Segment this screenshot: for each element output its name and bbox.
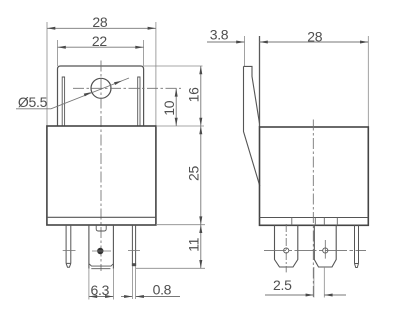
svg-text:25: 25	[185, 166, 201, 181]
svg-text:2.5: 2.5	[273, 277, 292, 293]
svg-text:10: 10	[161, 100, 177, 115]
svg-text:28: 28	[92, 14, 107, 30]
svg-text:3.8: 3.8	[210, 27, 229, 43]
svg-text:11: 11	[185, 237, 201, 251]
svg-text:16: 16	[185, 87, 201, 102]
svg-text:0.8: 0.8	[153, 282, 172, 298]
svg-text:28: 28	[307, 28, 322, 44]
svg-text:6.3: 6.3	[91, 282, 110, 298]
svg-text:Ø5.5: Ø5.5	[18, 94, 48, 110]
svg-text:22: 22	[92, 33, 107, 49]
